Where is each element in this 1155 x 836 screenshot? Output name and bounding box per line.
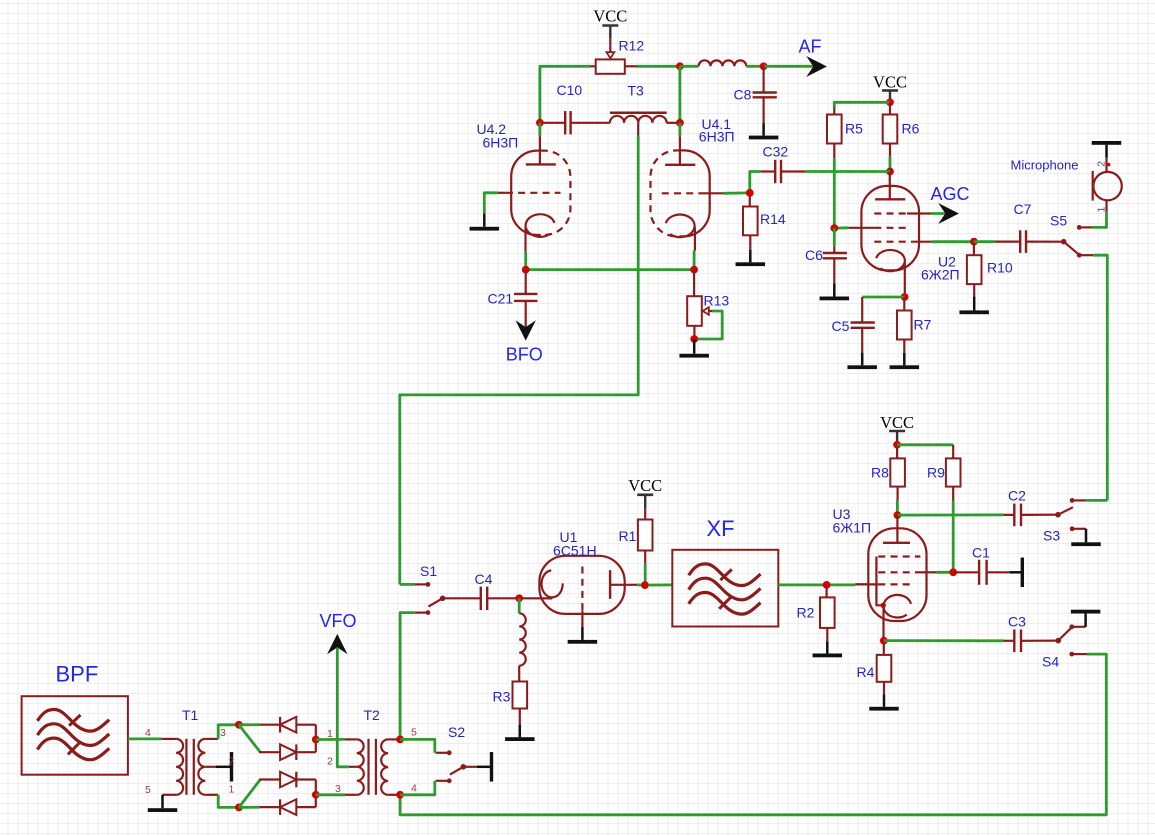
T2 pin 3 number: [335, 783, 341, 795]
junction ring top: [235, 721, 243, 729]
T2 pin 5 lead: [388, 738, 400, 740]
switch S2: [436, 750, 467, 783]
svg-text:R4: R4: [857, 664, 875, 680]
capacitor C21: [514, 270, 537, 328]
svg-text:6C51H: 6C51H: [553, 543, 597, 559]
svg-text:R7: R7: [914, 317, 932, 333]
switch S4: [1055, 624, 1087, 656]
ground under R13: [679, 339, 709, 358]
wire S5 upper to microphone: [1093, 213, 1107, 228]
label U4.2: [477, 121, 507, 137]
T1 pin 2 lead: [205, 766, 216, 768]
capacitor C5: [851, 297, 875, 353]
diode D3: [259, 772, 316, 788]
svg-text:R12: R12: [619, 38, 645, 54]
junction D1-D2: [312, 736, 320, 744]
label S4: [1042, 654, 1059, 670]
diode D2: [259, 744, 316, 760]
svg-text:1: 1: [229, 784, 235, 796]
wire VCC3 to R9: [897, 445, 953, 459]
wire R5 down to U2 grid1 node: [833, 144, 835, 229]
potentiometer R12 wiper arrow: [607, 52, 615, 58]
resistor R14: [743, 193, 758, 250]
VCC symbol (R1): [628, 476, 662, 509]
resistor R4: [877, 641, 892, 695]
T1 pin 5 number: [145, 784, 151, 796]
wire S1 lower down to T2: [400, 613, 415, 740]
wire ring top to D1: [239, 723, 259, 726]
junction T2 pin4: [396, 791, 404, 799]
label R6: [902, 121, 920, 137]
net label VFO: [320, 611, 357, 631]
svg-text:R14: R14: [760, 211, 786, 227]
wire BPF out to T1: [128, 738, 161, 741]
label R13: [704, 293, 730, 309]
svg-text:R2: R2: [797, 605, 815, 621]
label U4.1: [702, 116, 732, 132]
inductor L2: [519, 598, 526, 681]
label R7: [914, 317, 932, 333]
svg-text:3: 3: [335, 783, 341, 795]
capacitor C1: [953, 560, 1010, 585]
capacitor C6: [823, 228, 847, 283]
svg-text:AGC: AGC: [931, 184, 970, 204]
net label BFO: [506, 345, 543, 365]
capacitor C32: [750, 160, 890, 193]
wire R1 to plate node: [644, 563, 647, 585]
wire T1 pin1 down to ring node: [218, 795, 239, 808]
wire S4 lower to bottom rail: [400, 654, 1106, 815]
junction VCC3: [893, 441, 901, 449]
junction R6/C32/plate: [886, 168, 894, 176]
svg-text:4: 4: [411, 783, 417, 795]
label R4: [857, 664, 875, 680]
svg-text:BFO: BFO: [506, 345, 543, 365]
T1 pin 1 lead: [205, 794, 218, 796]
VCC symbol (R5/R6): [873, 73, 907, 103]
wire R6 down to C32 node: [889, 144, 891, 172]
svg-text:C6: C6: [805, 247, 823, 263]
resistor R12: [596, 59, 625, 73]
T1 pin 3 number: [220, 727, 226, 739]
net label AF: [799, 37, 822, 57]
flipped ground above microphone: [1092, 141, 1122, 158]
triode U4.2 envelope: [511, 151, 570, 235]
U3 suppressor-cathode tie: [876, 557, 886, 609]
svg-text:R6: R6: [902, 121, 920, 137]
resistor R8: [890, 445, 905, 487]
capacitor C4: [481, 587, 519, 610]
ground under R14: [736, 250, 766, 266]
label T2: [364, 707, 381, 723]
U3 plate: [883, 515, 910, 543]
junction cathode right: [690, 266, 698, 274]
wire S3 upper to right rail: [1086, 499, 1108, 502]
junction U1 plate node: [641, 581, 649, 589]
inductor L1 top rail: [680, 60, 764, 66]
U4.1 cathode: [666, 215, 695, 251]
resistor R3: [513, 682, 528, 725]
U4.1 grid: [662, 192, 723, 194]
T2 pin 4 lead: [388, 794, 400, 796]
label C8: [734, 87, 752, 103]
svg-text:R5: R5: [845, 121, 863, 137]
label Microphone: [1011, 158, 1079, 173]
capacitor C2: [1004, 504, 1059, 527]
crossover wire bottom-to-D3: [239, 780, 260, 808]
wire cathode bus: [526, 251, 694, 270]
wire T3 right lead: [667, 122, 680, 124]
junction node AF/C8: [760, 62, 768, 70]
resistor R9: [946, 458, 961, 486]
svg-text:3: 3: [220, 727, 226, 739]
capacitor C3: [1004, 630, 1059, 653]
svg-text:4: 4: [145, 727, 151, 739]
VCC symbol (R8/R9): [880, 413, 914, 443]
resistor R7: [897, 297, 912, 353]
svg-text:6Н3П: 6Н3П: [699, 129, 735, 145]
net port BFO arrow: [516, 320, 536, 340]
T1 pin 3 lead: [205, 738, 218, 740]
svg-text:5: 5: [145, 784, 151, 796]
ground under R7: [890, 353, 920, 369]
sideways ground at S2: [477, 752, 493, 782]
ground under R2: [813, 641, 843, 657]
U2 plate: [875, 172, 905, 200]
label T3: [628, 83, 645, 99]
U4.2 cathode: [526, 214, 555, 252]
T2 pin 5 number: [411, 727, 417, 739]
svg-text:T2: T2: [364, 707, 381, 723]
svg-text:VFO: VFO: [320, 611, 357, 631]
label U4.1 type 6H3P: [699, 129, 735, 145]
svg-text:C7: C7: [1014, 201, 1032, 217]
wire S5 lower to right rail: [1093, 255, 1107, 500]
label U2 type 6Zh2P: [921, 267, 960, 283]
U3 grid1 control: [855, 583, 914, 585]
R13 wiper arrow: [694, 307, 722, 339]
label R10: [987, 260, 1013, 276]
label C5: [832, 318, 850, 334]
U4.1 plate: [665, 123, 695, 165]
net label XF: [707, 516, 735, 541]
label U1 type 6C51H: [553, 543, 597, 559]
wire AGC: [931, 212, 947, 215]
label R2: [797, 605, 815, 621]
resistor R6: [883, 102, 898, 143]
wire into U1 cathode: [519, 597, 552, 599]
pentode U3 envelope: [868, 528, 926, 621]
microphone MK1 body: [1093, 171, 1122, 201]
transformer T3 core bar: [610, 112, 667, 115]
wire U4.2 grid to ground: [484, 193, 498, 214]
svg-text:6Ж2П: 6Ж2П: [921, 267, 960, 283]
resistor R10: [967, 242, 982, 297]
U2 cathode: [876, 250, 905, 297]
transformer T2 core: [369, 739, 376, 795]
junction U2 grid1/C6: [830, 224, 838, 232]
wire D1-D2 link: [315, 725, 317, 753]
ground under C8: [749, 123, 779, 139]
ground at T1 pin 5: [148, 795, 178, 812]
flipped ground above S4: [1071, 610, 1101, 627]
U2 grid1 left: [834, 227, 907, 230]
svg-text:C21: C21: [488, 291, 514, 307]
resistor R2: [820, 585, 835, 642]
svg-text:S4: S4: [1042, 654, 1059, 670]
wire T1 pin3 up to ring node: [218, 725, 239, 739]
label R3: [493, 689, 511, 705]
resistor R1: [638, 509, 653, 563]
junction U3 plate node: [894, 511, 902, 519]
capacitor C10: [544, 111, 610, 134]
T1 pin 2 number: [229, 756, 235, 768]
svg-text:1: 1: [1096, 207, 1108, 213]
label C32: [763, 144, 789, 160]
svg-text:C2: C2: [1008, 488, 1026, 504]
svg-text:T1: T1: [182, 707, 199, 723]
svg-text:6Н3П: 6Н3П: [483, 135, 519, 151]
label R5: [845, 121, 863, 137]
U3 cathode: [883, 595, 911, 641]
svg-text:T3: T3: [628, 83, 645, 99]
label U3 type 6Zh1P: [833, 520, 872, 536]
microphone pin 1 number: [1096, 207, 1108, 213]
switch S3: [1055, 498, 1086, 531]
svg-text:R8: R8: [871, 465, 889, 481]
label R9: [927, 465, 945, 481]
transformer T1 secondary: [198, 739, 205, 795]
T2 pin 4 number: [411, 783, 417, 795]
wire cathode to C5: [862, 296, 904, 299]
label S5: [1050, 213, 1067, 229]
XF filter waves: [689, 564, 761, 614]
wire ring to T2 pin3: [316, 793, 357, 796]
label C1: [972, 545, 990, 561]
transformer T3 winding: [610, 116, 667, 123]
svg-text:5: 5: [411, 727, 417, 739]
svg-text:VCC: VCC: [593, 7, 627, 26]
junction U3 cathode node: [880, 637, 888, 645]
capacitor C8: [753, 66, 777, 123]
wire R12 right to node: [625, 65, 680, 67]
U4.2 plate: [526, 123, 556, 165]
svg-text:2: 2: [1096, 161, 1108, 167]
wire ring to T2 pin1: [316, 738, 357, 741]
svg-text:S1: S1: [420, 563, 437, 579]
svg-text:R9: R9: [927, 465, 945, 481]
svg-text:2: 2: [327, 756, 333, 768]
net port VFO arrow: [327, 634, 347, 654]
net port AF arrow: [806, 56, 827, 77]
svg-text:S2: S2: [448, 724, 465, 740]
ground under U1 grid: [568, 627, 598, 644]
microphone pin 1: [1105, 200, 1107, 213]
ground under S3: [1071, 529, 1101, 546]
ground under R3: [505, 725, 535, 741]
wire to AF port: [764, 65, 814, 68]
wire R9 down to screen node: [952, 487, 954, 573]
ground under C6: [820, 283, 850, 300]
junction ring bottom: [235, 804, 243, 812]
junction cathode left: [522, 266, 530, 274]
svg-text:S3: S3: [1043, 528, 1060, 544]
label T1: [182, 707, 199, 723]
junction U3 screen node: [949, 568, 957, 576]
wire T2 pin4 to S2 lower: [400, 781, 435, 795]
label C10: [557, 82, 583, 98]
wire node down to T3 right node: [679, 66, 682, 123]
svg-text:VCC: VCC: [880, 413, 914, 432]
U3 grid3 suppressor: [878, 555, 920, 557]
U1 cathode: [542, 570, 563, 597]
switch S5: [1061, 225, 1093, 258]
wire R12 left corner down to C10 node: [540, 66, 596, 122]
wire VCC to R12 wiper: [609, 39, 611, 53]
U4.2 grid: [498, 192, 561, 194]
switch S1: [415, 582, 446, 615]
pentode U2 envelope: [861, 186, 919, 271]
triode U1 envelope: [539, 556, 624, 614]
wire cathode node to C3: [884, 639, 1004, 642]
label S1: [420, 563, 437, 579]
U1 grid: [581, 567, 583, 628]
bandpass BPF box: [22, 696, 128, 775]
svg-text:R10: R10: [987, 260, 1013, 276]
svg-text:XF: XF: [707, 516, 735, 541]
label U1: [560, 529, 578, 545]
svg-text:C3: C3: [1008, 614, 1026, 630]
ground under R10: [959, 297, 989, 315]
svg-text:C10: C10: [557, 82, 583, 98]
wire VFO down to T2 pin2: [337, 648, 357, 767]
junction VCC2: [886, 98, 894, 106]
junction node C10/T3 left: [536, 119, 544, 127]
label U3: [833, 506, 851, 522]
svg-text:S5: S5: [1050, 213, 1067, 229]
net label AGC: [931, 184, 970, 204]
junction U2 out / R10: [970, 238, 978, 246]
label C3: [1008, 614, 1026, 630]
net port AGC arrow: [938, 203, 959, 224]
label S2: [448, 724, 465, 740]
svg-text:C1: C1: [972, 545, 990, 561]
T2 pin 2 number: [327, 756, 333, 768]
U2 grid3 (AGC out): [874, 212, 931, 214]
T1 pin 4 number: [145, 727, 151, 739]
label C6: [805, 247, 823, 263]
svg-text:2: 2: [229, 756, 235, 768]
T2 pin 1 number: [327, 728, 333, 740]
junction U2 cathode: [901, 293, 909, 301]
wire T2 pin5 to S2 upper: [400, 739, 435, 752]
crossover wire top-to-D2: [239, 725, 260, 752]
label C7: [1014, 201, 1032, 217]
label U2: [938, 254, 956, 270]
sideways ground at T1 pin 2: [216, 752, 233, 782]
svg-text:Microphone: Microphone: [1011, 158, 1079, 173]
label C4: [475, 571, 493, 587]
junction T2 pin5: [396, 736, 404, 744]
capacitor C7: [974, 230, 1064, 253]
label R8: [871, 465, 889, 481]
transformer T2 right winding: [381, 739, 388, 794]
svg-text:C8: C8: [734, 87, 752, 103]
label R14: [760, 211, 786, 227]
resistor R5: [827, 115, 842, 144]
wire XF out to U3 grid: [778, 583, 868, 586]
triode U4.1 envelope: [651, 150, 710, 236]
ground under C5: [847, 353, 877, 369]
svg-text:R3: R3: [493, 689, 511, 705]
junction R13 bottom: [690, 335, 698, 343]
wire S1 common to C4: [443, 597, 481, 599]
junction D3-D4: [312, 791, 320, 799]
BPF filter waves: [37, 709, 109, 759]
label C2: [1008, 488, 1026, 504]
wire S1 upper from long run: [400, 583, 415, 586]
junction U4.1 grid node: [746, 189, 754, 197]
T1 pin 5 lead: [163, 794, 177, 796]
transformer T1 core: [186, 739, 193, 795]
svg-text:C32: C32: [763, 144, 789, 160]
U1 plate: [610, 570, 645, 599]
junction R2 node: [823, 581, 831, 589]
junction node T3 right: [676, 119, 684, 127]
wire U4.1 grid to R14 node: [723, 191, 750, 194]
wire VCC2 to R5: [834, 102, 890, 114]
bandpass XF box: [672, 550, 778, 627]
T1 pin 1 number: [229, 784, 235, 796]
VCC symbol top (for R12): [593, 7, 627, 39]
svg-text:R13: R13: [704, 293, 730, 309]
ground under R4: [869, 694, 899, 710]
transformer T2 left winding: [357, 739, 364, 794]
wire D3-D4 link: [315, 780, 317, 808]
svg-text:1: 1: [327, 728, 333, 740]
ground at U4.2 grid: [470, 213, 500, 230]
svg-text:VCC: VCC: [628, 476, 662, 495]
label R1: [619, 528, 637, 544]
wire R8 to U3 plate node: [896, 487, 898, 515]
junction XF input: [641, 582, 648, 589]
junction node at top rail: [676, 62, 684, 70]
wire ring bottom to D4: [239, 806, 259, 809]
wire S2 common to ground: [463, 766, 477, 768]
svg-text:C4: C4: [475, 571, 493, 587]
label R12: [619, 38, 645, 54]
potentiometer R13: [687, 270, 702, 339]
sideways ground at C1: [1010, 558, 1024, 588]
T1 pin 4 lead: [161, 738, 176, 740]
wire plate node to C2: [897, 514, 1003, 517]
label C21: [488, 291, 514, 307]
junction C4/L2 node: [515, 594, 523, 602]
U3 grid2 screen: [878, 571, 953, 573]
microphone pin 2 number: [1096, 161, 1108, 167]
svg-text:R1: R1: [619, 528, 637, 544]
microphone pin 2: [1107, 158, 1111, 172]
label U4.2 type 6H3P: [483, 135, 519, 151]
svg-text:C5: C5: [832, 318, 850, 334]
label S3: [1043, 528, 1060, 544]
svg-text:VCC: VCC: [873, 73, 907, 92]
svg-text:AF: AF: [799, 37, 822, 57]
svg-text:6Ж1П: 6Ж1П: [833, 520, 872, 536]
diode D1: [259, 717, 316, 733]
transformer T1 primary: [176, 739, 183, 795]
U2 grid2 right: [874, 241, 974, 243]
